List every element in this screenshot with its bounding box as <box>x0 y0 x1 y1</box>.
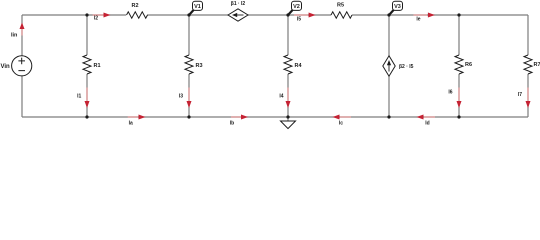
svg-text:R1: R1 <box>94 63 101 69</box>
svg-text:Ib: Ib <box>230 120 234 126</box>
svg-text:R4: R4 <box>295 63 303 69</box>
svg-text:I4: I4 <box>279 93 283 99</box>
svg-text:I2: I2 <box>94 15 98 21</box>
svg-text:Ie: Ie <box>416 17 420 23</box>
svg-text:Id: Id <box>425 120 429 126</box>
svg-text:β2 · I5: β2 · I5 <box>399 64 414 70</box>
svg-text:R3: R3 <box>196 63 203 69</box>
svg-text:I6: I6 <box>448 90 452 96</box>
svg-text:Ic: Ic <box>339 120 343 126</box>
svg-text:R7: R7 <box>534 62 540 68</box>
svg-text:β1 · I2: β1 · I2 <box>231 1 246 7</box>
svg-text:Ia: Ia <box>129 120 133 126</box>
svg-text:R2: R2 <box>131 3 138 9</box>
svg-text:V3: V3 <box>394 4 401 10</box>
svg-text:I3: I3 <box>179 93 183 99</box>
svg-text:R5: R5 <box>337 2 344 8</box>
svg-text:V2: V2 <box>293 4 300 10</box>
svg-text:I7: I7 <box>518 92 522 98</box>
svg-text:I1: I1 <box>77 93 81 99</box>
svg-text:V1: V1 <box>194 4 201 10</box>
svg-text:I5: I5 <box>297 17 301 23</box>
svg-text:Iin: Iin <box>11 32 18 38</box>
svg-text:Vin: Vin <box>1 64 11 70</box>
svg-text:R6: R6 <box>465 62 472 68</box>
